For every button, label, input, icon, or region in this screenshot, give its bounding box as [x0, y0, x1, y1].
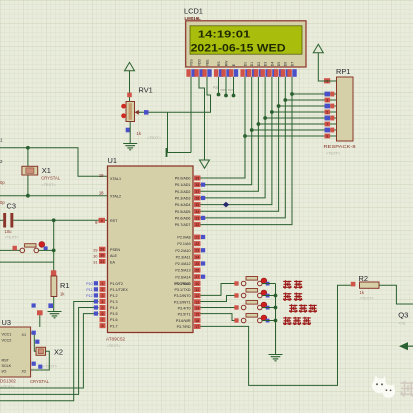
svg-text:33: 33 [195, 216, 199, 220]
junction button common 1 [274, 294, 278, 298]
svg-text:32: 32 [195, 223, 199, 227]
wire D7 to MCU P0.7 [201, 94, 293, 225]
svg-text:RESPACK-8: RESPACK-8 [324, 144, 357, 149]
wire D6 to RP1 pin 3 [285, 99, 330, 101]
svg-text:P0.0/AD0: P0.0/AD0 [175, 177, 191, 181]
svg-text:X1: X1 [22, 333, 27, 337]
wire MCU P3.3 to plus button [201, 296, 239, 302]
junction X1 top [26, 146, 30, 150]
wire C3 left [0, 219, 3, 221]
junction button common 2 [274, 306, 278, 310]
wire power to RV1 [129, 71, 131, 102]
wire set button to common [262, 320, 275, 322]
svg-text:EA: EA [110, 260, 115, 264]
svg-text:<TEXT>: <TEXT> [360, 297, 375, 301]
svg-text:XTAL2: XTAL2 [110, 195, 121, 199]
junction RST node [52, 218, 56, 222]
LCD display LCD1 label [184, 7, 203, 21]
wire RST node down [53, 220, 55, 271]
net labels P25 P26 P27 [213, 86, 234, 93]
svg-text:X2: X2 [22, 370, 27, 374]
power terminal above RP1 [313, 44, 323, 53]
svg-text:P3.2/INT0: P3.2/INT0 [174, 294, 191, 298]
svg-text:1: 1 [102, 282, 104, 286]
svg-text:<TEXT>: <TEXT> [42, 183, 57, 187]
svg-text:15: 15 [195, 313, 199, 317]
wire R2 to Q1 base [379, 285, 413, 304]
svg-text:SCLK: SCLK [2, 364, 12, 368]
wire RV1 to ground [129, 122, 131, 144]
svg-text:7: 7 [102, 318, 104, 322]
svg-text:5: 5 [326, 110, 328, 114]
push button set key [234, 314, 269, 323]
push button plus key [234, 289, 269, 298]
LCD display LCD1 (LM016L) body [186, 21, 306, 67]
label 选择键 (select key) [289, 304, 317, 312]
junction D5 [277, 104, 281, 108]
svg-text:LM016L: LM016L [185, 16, 202, 21]
svg-text:29: 29 [93, 248, 97, 252]
svg-text:P10: P10 [86, 282, 92, 286]
svg-text:U1: U1 [108, 156, 117, 165]
svg-text:9: 9 [101, 219, 103, 223]
svg-text:VDD: VDD [197, 58, 201, 66]
wire D2 to MCU P0.2 [201, 124, 259, 191]
wire LCD RS stub [218, 77, 220, 95]
junction X1 bottom [26, 194, 30, 198]
svg-text:18: 18 [99, 191, 104, 196]
wire D1 to MCU P0.1 [201, 130, 252, 185]
svg-text:2: 2 [102, 288, 104, 292]
svg-text:D2: D2 [257, 62, 261, 66]
wire D0 to RP1 pin 9 [245, 135, 331, 137]
svg-text:3: 3 [326, 98, 328, 102]
wire LCD D6 vertical [284, 77, 286, 100]
push button select key [234, 301, 269, 310]
junction D7 [290, 92, 294, 96]
svg-text:P1.7: P1.7 [110, 324, 118, 328]
wire D5 to MCU P0.5 [201, 106, 279, 211]
svg-text:X1: X1 [42, 166, 51, 175]
svg-text:6: 6 [102, 312, 104, 316]
svg-text:RST: RST [2, 359, 10, 363]
svg-text:19: 19 [99, 173, 104, 178]
svg-text:P2.0/A8: P2.0/A8 [177, 236, 190, 240]
svg-text:2021-06-15 WED: 2021-06-15 WED [191, 43, 286, 55]
svg-text:VCC1: VCC1 [2, 333, 12, 337]
wire LCD D5 vertical [278, 77, 280, 106]
svg-text:31: 31 [100, 260, 104, 264]
microcontroller U1 (AT89C52) body [106, 166, 193, 348]
svg-text:P2.4/A12: P2.4/A12 [175, 262, 190, 266]
wire LCD VDD down [199, 77, 205, 160]
power terminal above RV1 [125, 62, 135, 71]
svg-text:P2.1/A9: P2.1/A9 [177, 242, 190, 246]
svg-text:31: 31 [93, 261, 97, 265]
svg-text:P0.5/AD5: P0.5/AD5 [175, 210, 191, 214]
wire LCD D3 vertical [264, 77, 266, 118]
svg-text:25: 25 [195, 262, 199, 266]
svg-text:D3: D3 [264, 62, 268, 66]
watermark text 嘉 (cut off) [400, 381, 413, 396]
junction D6 [283, 98, 287, 102]
label 加键 (plus key) [283, 293, 302, 301]
LCD1 pin number and net labels (pins 1-14) [186, 69, 296, 77]
label 设置键 (set key) [283, 317, 311, 325]
svg-text:P3.0/RXD: P3.0/RXD [174, 282, 191, 286]
RP1 pins 2-9 [325, 92, 337, 139]
svg-text:Q3: Q3 [398, 311, 408, 320]
svg-text:<TEXT>: <TEXT> [147, 136, 162, 140]
svg-text:RV1: RV1 [139, 86, 153, 95]
svg-text:35: 35 [195, 203, 199, 207]
svg-text:10: 10 [195, 282, 199, 286]
wire D5 to RP1 pin 4 [279, 105, 331, 107]
svg-text:P3.3/INT1: P3.3/INT1 [174, 300, 191, 304]
svg-text:P0.1/AD1: P0.1/AD1 [175, 183, 191, 187]
junction D2 [257, 122, 261, 126]
node RS (P25) [217, 93, 221, 97]
svg-text:0p: 0p [0, 180, 5, 185]
wire D4 to MCU P0.4 [201, 112, 272, 205]
junction reset button [52, 249, 56, 253]
resistor R1 [48, 270, 69, 308]
svg-text:23: 23 [195, 249, 199, 253]
svg-text:<TEXT>: <TEXT> [5, 236, 20, 240]
wire MCU P1.5 to DS1302 I/O [0, 314, 99, 388]
junction button common 3 [274, 319, 278, 323]
svg-text:38: 38 [195, 183, 199, 187]
svg-text:RST: RST [110, 219, 118, 223]
wire select button to common [262, 307, 275, 309]
wire crystal to U3 X2 [31, 351, 50, 370]
wire VSS to terminal [167, 152, 192, 154]
svg-text:P2.6/A14: P2.6/A14 [175, 275, 190, 279]
wire plus button to common [262, 295, 275, 297]
svg-text:29: 29 [100, 248, 104, 252]
svg-text:27: 27 [195, 275, 199, 279]
wire MCU P1.4 to DS1302 SCLK [0, 308, 99, 395]
svg-text:4: 4 [102, 300, 104, 304]
svg-text:0p: 0p [0, 200, 5, 205]
svg-text:CRYSTAL: CRYSTAL [41, 176, 61, 181]
svg-text:8: 8 [102, 324, 104, 328]
U1 P1 pin labels (pins 1-8, nets P10-P12) [86, 281, 105, 328]
svg-text:14:19:01: 14:19:01 [198, 29, 251, 40]
wire U3 X1 to crystal [31, 333, 36, 351]
capacitor C3 [3, 202, 19, 240]
svg-text:34: 34 [195, 210, 199, 214]
watermark logo (paw/cat faces) [372, 376, 395, 398]
svg-text:9: 9 [326, 134, 328, 138]
label 减键 (minus key) [283, 280, 302, 288]
svg-text:21: 21 [195, 236, 199, 240]
svg-text:P0.2/AD2: P0.2/AD2 [175, 190, 191, 194]
svg-text:7: 7 [326, 122, 328, 126]
svg-text:VEE: VEE [205, 59, 209, 67]
svg-text:DS1302: DS1302 [0, 379, 16, 384]
wire button common to ground [275, 284, 277, 355]
crystal X1 [22, 166, 61, 187]
svg-text:5: 5 [102, 306, 104, 310]
potentiometer RV1 [121, 86, 162, 141]
svg-text:26: 26 [195, 269, 199, 273]
svg-text:24: 24 [195, 255, 199, 259]
svg-text:16: 16 [195, 319, 199, 323]
svg-text:P2.2/A10: P2.2/A10 [175, 249, 190, 253]
resistor R2 [351, 274, 379, 301]
wire LCD D2 vertical [257, 77, 259, 124]
wire LCD VEE to RV1 wiper [136, 77, 211, 113]
svg-text:P0.6/AD6: P0.6/AD6 [175, 217, 191, 221]
svg-text:P25: P25 [213, 86, 219, 90]
svg-text:P1.5: P1.5 [110, 312, 118, 316]
svg-text:22: 22 [195, 242, 199, 246]
wire minus button to common [262, 283, 275, 285]
svg-text:D5: D5 [277, 62, 281, 66]
svg-text:14: 14 [195, 306, 199, 310]
svg-text:AT89C52: AT89C52 [106, 337, 126, 342]
wire MCU P3.7 to R2 [201, 285, 351, 385]
svg-text:11: 11 [195, 288, 199, 292]
svg-text:D6: D6 [284, 62, 288, 66]
svg-text:P12: P12 [86, 294, 92, 298]
svg-text:XTAL1: XTAL1 [110, 177, 121, 181]
reset push button [0, 242, 54, 253]
net marker diamond on P0.4 wire [223, 202, 229, 208]
wire LCD RW stub [225, 77, 227, 96]
svg-text:P26: P26 [221, 88, 227, 92]
node E (P27) [232, 94, 236, 98]
node RW (P26) [224, 94, 228, 98]
svg-text:P1.1/T2EX: P1.1/T2EX [110, 288, 128, 292]
svg-text:P27: P27 [228, 88, 234, 92]
RTC U3 label [2, 318, 11, 327]
svg-text:LCD1: LCD1 [184, 7, 203, 16]
wire LCD D0 vertical [244, 77, 246, 136]
svg-text:D4: D4 [270, 62, 274, 66]
svg-text:P0.7/AD7: P0.7/AD7 [175, 223, 191, 227]
U1 right pin number boxes [194, 176, 205, 329]
ground below RV1 [123, 144, 137, 150]
junction D0 [243, 134, 247, 138]
svg-text:P3.7/RD: P3.7/RD [177, 325, 191, 329]
wire MCU P3.2 to minus button [201, 284, 239, 296]
svg-text:12: 12 [195, 294, 199, 298]
wire D6 to MCU P0.6 [201, 100, 286, 218]
ground below buttons [269, 355, 283, 361]
wire LCD VSS down [190, 77, 192, 153]
wire power to RP1 pin 1 [318, 53, 330, 81]
svg-text:D7: D7 [290, 62, 294, 66]
power terminal bar [166, 148, 168, 157]
svg-text:P0.3/AD3: P0.3/AD3 [175, 197, 191, 201]
svg-text:P3.5/T1: P3.5/T1 [178, 313, 191, 317]
svg-text:P3.6/WR: P3.6/WR [176, 319, 191, 323]
wire MCU P3.5 to set button [201, 314, 239, 321]
wire D2 to RP1 pin 7 [258, 123, 330, 125]
power arrow terminal (left, cut off at edge) [400, 343, 413, 350]
svg-text:RW: RW [224, 60, 228, 66]
wire LCD E stub [233, 77, 235, 96]
svg-text:PSEN: PSEN [110, 248, 120, 252]
svg-text:P1.3: P1.3 [110, 300, 118, 304]
svg-text:X2: X2 [54, 348, 63, 357]
svg-text:17: 17 [195, 325, 199, 329]
U1 left pin numbers 19 18 9 29 30 31 [93, 173, 105, 265]
svg-text:P11: P11 [86, 288, 92, 292]
svg-text:37: 37 [195, 190, 199, 194]
svg-text:39: 39 [195, 177, 199, 181]
RTC U3 (DS1302) body [0, 303, 43, 389]
wire X1 leads [27, 148, 29, 196]
svg-text:13: 13 [195, 300, 199, 304]
svg-text:<TEXT>: <TEXT> [43, 365, 58, 369]
capacitor C2 (cut off at edge) [0, 159, 5, 205]
wire C3 to RST [13, 219, 107, 221]
transistor Q1 (cut off at edge) [398, 311, 408, 326]
junction D4 [270, 110, 274, 114]
microcontroller U1 label [108, 156, 117, 165]
push button minus key [234, 277, 269, 286]
wire R1 to ground [53, 297, 55, 312]
wire LCD D7 vertical [291, 77, 293, 94]
svg-text:C3: C3 [7, 202, 16, 211]
wire D7 to RP1 pin 2 [292, 93, 331, 95]
svg-text:10u: 10u [5, 229, 13, 234]
svg-text:30: 30 [93, 254, 97, 258]
svg-text:D1: D1 [250, 62, 254, 66]
wire MCU P1.3 to DS1302 RST [0, 302, 99, 401]
svg-text:P3.4/T0: P3.4/T0 [178, 307, 191, 311]
svg-text:RS: RS [217, 61, 221, 66]
svg-text:P1.2: P1.2 [110, 294, 118, 298]
svg-text:R2: R2 [359, 274, 368, 283]
wire XTAL1 rail [0, 148, 108, 176]
resistor pack RP1 label [336, 67, 350, 76]
wire XTAL2 rail [0, 195, 108, 197]
ground below R1 [48, 312, 62, 318]
wire LCD D1 vertical [251, 77, 253, 130]
svg-text:RP1: RP1 [336, 67, 350, 76]
wire D3 to MCU P0.3 [201, 118, 266, 198]
svg-text:I/O: I/O [2, 370, 7, 374]
ground terminal arrow (down) [200, 160, 210, 168]
svg-text:VSS: VSS [189, 59, 193, 67]
svg-text:P0.4/AD4: P0.4/AD4 [175, 203, 191, 207]
svg-text:P2.3/A11: P2.3/A11 [176, 256, 191, 260]
svg-text:30: 30 [100, 254, 104, 258]
wire D4 to RP1 pin 5 [272, 111, 331, 113]
svg-text:<TEXT>: <TEXT> [107, 344, 122, 348]
svg-text:P3.1/TXD: P3.1/TXD [175, 288, 191, 292]
wire left rail to R1 node [0, 261, 54, 263]
svg-text:VCC2: VCC2 [2, 339, 12, 343]
svg-text:P2.5/A13: P2.5/A13 [175, 269, 190, 273]
svg-text:D0: D0 [243, 62, 247, 66]
junction D3 [263, 116, 267, 120]
svg-text:<TE: <TE [399, 322, 407, 326]
svg-text:P1.0/T2: P1.0/T2 [110, 282, 123, 286]
svg-text:CRYSTAL: CRYSTAL [30, 379, 50, 384]
wire LCD D4 vertical [271, 77, 273, 112]
wire MCU P3.4 to select button [201, 307, 239, 309]
resistor pack RP1 (RESPACK-8) body [324, 77, 357, 156]
svg-text:P1.4: P1.4 [110, 306, 118, 310]
junction D1 [250, 128, 254, 132]
svg-text:U3: U3 [2, 318, 11, 327]
capacitor C1 label (cut off at edge) [0, 138, 3, 143]
wire D0 to MCU P0.0 [201, 136, 246, 178]
svg-text:3: 3 [102, 294, 104, 298]
wire D1 to RP1 pin 8 [252, 129, 331, 131]
wire terminal riser [167, 112, 169, 152]
svg-text:ALE: ALE [110, 254, 118, 258]
wire D3 to RP1 pin 6 [265, 117, 330, 119]
svg-text:<TEXT>: <TEXT> [326, 152, 341, 156]
svg-text:P1.6: P1.6 [110, 318, 118, 322]
svg-text:36: 36 [195, 196, 199, 200]
svg-text:R1: R1 [60, 281, 69, 290]
RP1 pin 1 [324, 78, 337, 83]
